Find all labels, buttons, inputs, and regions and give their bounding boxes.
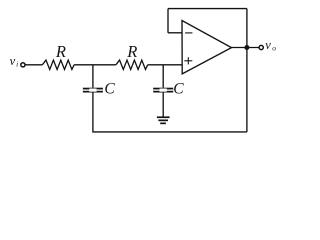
op-amp minus pin label [185,32,192,34]
wire op-amp inverting input [168,32,182,34]
op-amp plus pin label [184,57,192,64]
ground [157,116,170,124]
node output junction dot [244,45,249,50]
wire node B down to capacitor C2 [162,65,164,88]
wire R1 to node A [74,64,116,66]
output terminal vo [259,45,263,49]
label vo [265,38,276,53]
wire input terminal to R1 [25,64,42,66]
op-amp U1 [182,21,232,74]
svg-text:R: R [126,42,137,61]
svg-text:C: C [104,80,115,97]
wire feedback left vertical [167,9,169,33]
wire node A down to capacitor C1 [92,65,94,88]
capacitor C2 plates [153,88,173,93]
wire feedback right vertical output to bottom [246,9,248,132]
wire C1 bottom lead and bottom feedback wire to output node [93,93,247,132]
input terminal vi [21,63,25,67]
svg-text:i: i [16,60,18,69]
svg-text:v: v [265,38,271,52]
wire feedback top horizontal [168,8,247,10]
wire op-amp output to terminal [232,47,259,49]
wire R2 to op-amp + input [148,64,182,66]
resistor R2 [116,60,148,69]
svg-text:o: o [272,44,276,53]
svg-text:C: C [173,80,184,97]
wire C2 bottom lead to ground [162,93,164,117]
label vi [10,54,19,69]
svg-text:R: R [55,42,66,61]
resistor R1 [42,60,74,69]
capacitor C1 plates [83,88,103,93]
svg-text:v: v [10,54,16,68]
